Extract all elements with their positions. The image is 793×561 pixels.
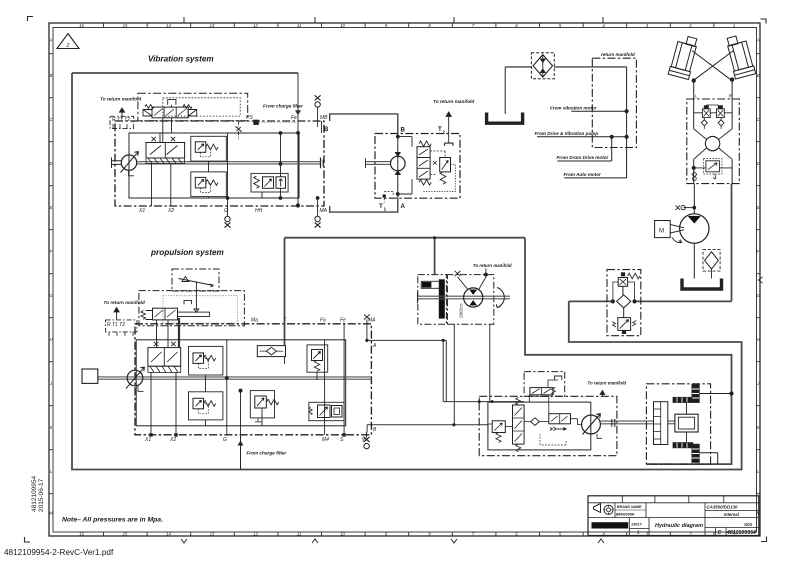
svg-text:15: 15 (123, 531, 128, 536)
svg-text:To return manifold: To return manifold (433, 99, 474, 104)
svg-text:From Drum Drive motor: From Drum Drive motor (557, 155, 609, 160)
svg-text:K: K (757, 425, 760, 430)
svg-text:X2: X2 (169, 437, 176, 443)
svg-text:4812109954: 4812109954 (31, 475, 38, 512)
svg-text:MA: MA (368, 318, 376, 324)
svg-text:2: 2 (65, 43, 69, 49)
svg-text:From charge filter: From charge filter (263, 104, 304, 109)
svg-text:2: 2 (443, 130, 446, 136)
svg-text:To return manifold: To return manifold (104, 300, 145, 305)
svg-text:G: G (223, 437, 227, 443)
svg-text:C: C (718, 530, 722, 536)
svg-text:X1: X1 (138, 208, 145, 214)
svg-text:To return manifold: To return manifold (100, 97, 141, 102)
svg-text:From Drive & Vibration pump: From Drive & Vibration pump (535, 131, 599, 136)
svg-text:MB: MB (320, 115, 328, 121)
svg-text:14: 14 (166, 23, 171, 28)
svg-text:F: F (50, 249, 53, 254)
svg-text:B: B (401, 127, 406, 134)
svg-text:return manifold: return manifold (601, 52, 635, 57)
svg-text:4812109954: 4812109954 (726, 530, 756, 536)
svg-text:4812109954-2-RevC-Ver1.pdf: 4812109954-2-RevC-Ver1.pdf (4, 548, 114, 557)
svg-text:13: 13 (210, 23, 215, 28)
svg-text:propulsion system: propulsion system (150, 248, 224, 257)
svg-text:14: 14 (166, 531, 171, 536)
svg-text:A: A (756, 38, 760, 43)
svg-text:Ma: Ma (251, 318, 258, 324)
svg-text:G: G (224, 208, 228, 214)
svg-text:11: 11 (297, 531, 301, 536)
svg-text:15: 15 (123, 23, 128, 28)
svg-text:M4: M4 (322, 437, 329, 443)
svg-text:F: F (757, 249, 760, 254)
svg-text:BM42009H: BM42009H (616, 513, 635, 517)
svg-text:2802cc: 2802cc (459, 302, 464, 318)
svg-text:E: E (757, 205, 760, 210)
svg-text:2015-06-17: 2015-06-17 (38, 478, 45, 512)
svg-text:10: 10 (340, 23, 345, 28)
svg-text:A: A (49, 38, 53, 43)
svg-text:K: K (50, 425, 53, 430)
svg-text:Fa: Fa (320, 318, 326, 324)
svg-text:PS: PS (246, 115, 253, 121)
svg-text:1: 1 (733, 23, 735, 28)
svg-text:BRAND NAME: BRAND NAME (617, 505, 642, 509)
svg-text:T: T (379, 203, 383, 210)
svg-text:E: E (50, 205, 53, 210)
svg-text:13: 13 (210, 531, 215, 536)
svg-text:16: 16 (79, 23, 84, 28)
svg-text:A: A (372, 343, 377, 349)
svg-text:10: 10 (340, 531, 345, 536)
svg-text:B: B (757, 73, 760, 78)
svg-text:To return manifold: To return manifold (473, 263, 512, 268)
svg-text:From Auto motor: From Auto motor (564, 172, 602, 177)
svg-text:X2: X2 (167, 208, 174, 214)
svg-text:12: 12 (253, 531, 258, 536)
svg-text:Hydraulic diagram: Hydraulic diagram (655, 523, 703, 529)
svg-text:X1: X1 (144, 437, 151, 443)
svg-text:Note– All pressures are in Mp: Note– All pressures are in Mpa. (62, 517, 163, 524)
svg-text:Fe: Fe (340, 318, 346, 324)
svg-text:HH: HH (255, 208, 263, 214)
svg-text:M: M (49, 511, 53, 516)
svg-text:From charge filter: From charge filter (246, 451, 287, 456)
svg-text:CA3500/DD130: CA3500/DD130 (707, 505, 739, 510)
svg-text:12: 12 (253, 23, 258, 28)
svg-text:R T1 T2: R T1 T2 (112, 117, 130, 123)
svg-text:11: 11 (297, 23, 301, 28)
svg-text:M: M (659, 229, 664, 235)
svg-text:Vibration system: Vibration system (148, 55, 214, 64)
svg-text:13017: 13017 (631, 523, 642, 527)
svg-text:Internal: Internal (724, 512, 740, 517)
svg-text:D: D (49, 161, 52, 166)
svg-text:B: B (324, 127, 329, 133)
svg-text:Fe: Fe (291, 115, 297, 121)
svg-text:S01: S01 (744, 522, 753, 527)
svg-text:A: A (401, 203, 406, 210)
svg-text:From vibration motor: From vibration motor (550, 106, 597, 111)
svg-text:R T1 T2: R T1 T2 (107, 322, 125, 328)
svg-text:T: T (438, 126, 442, 133)
svg-text:16: 16 (79, 531, 84, 536)
svg-text:B: B (50, 73, 53, 78)
svg-text:D: D (757, 161, 760, 166)
svg-text:1: 1 (384, 207, 387, 213)
svg-text:MA: MA (320, 208, 328, 214)
svg-text:To return manifold: To return manifold (588, 381, 627, 386)
